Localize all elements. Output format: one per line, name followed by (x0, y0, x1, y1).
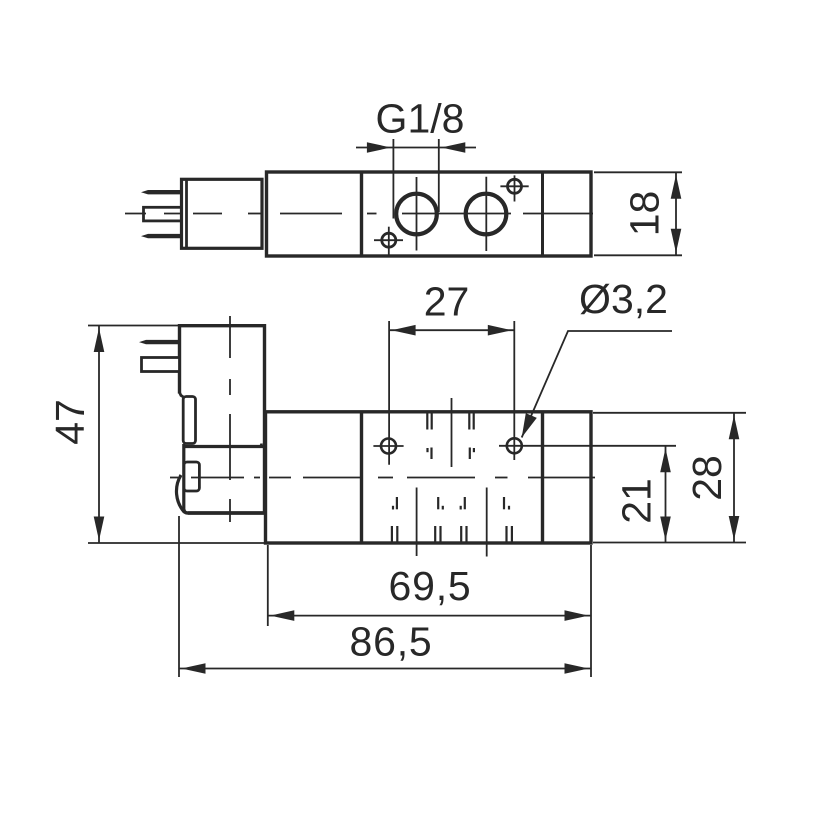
svg-text:Ø3,2: Ø3,2 (579, 276, 668, 322)
svg-text:18: 18 (622, 191, 668, 237)
svg-text:86,5: 86,5 (350, 619, 433, 665)
svg-text:47: 47 (47, 399, 93, 445)
svg-text:28: 28 (684, 455, 730, 501)
svg-text:21: 21 (614, 478, 660, 524)
svg-text:69,5: 69,5 (389, 563, 472, 609)
svg-text:G1/8: G1/8 (376, 96, 465, 142)
svg-text:27: 27 (424, 279, 470, 325)
